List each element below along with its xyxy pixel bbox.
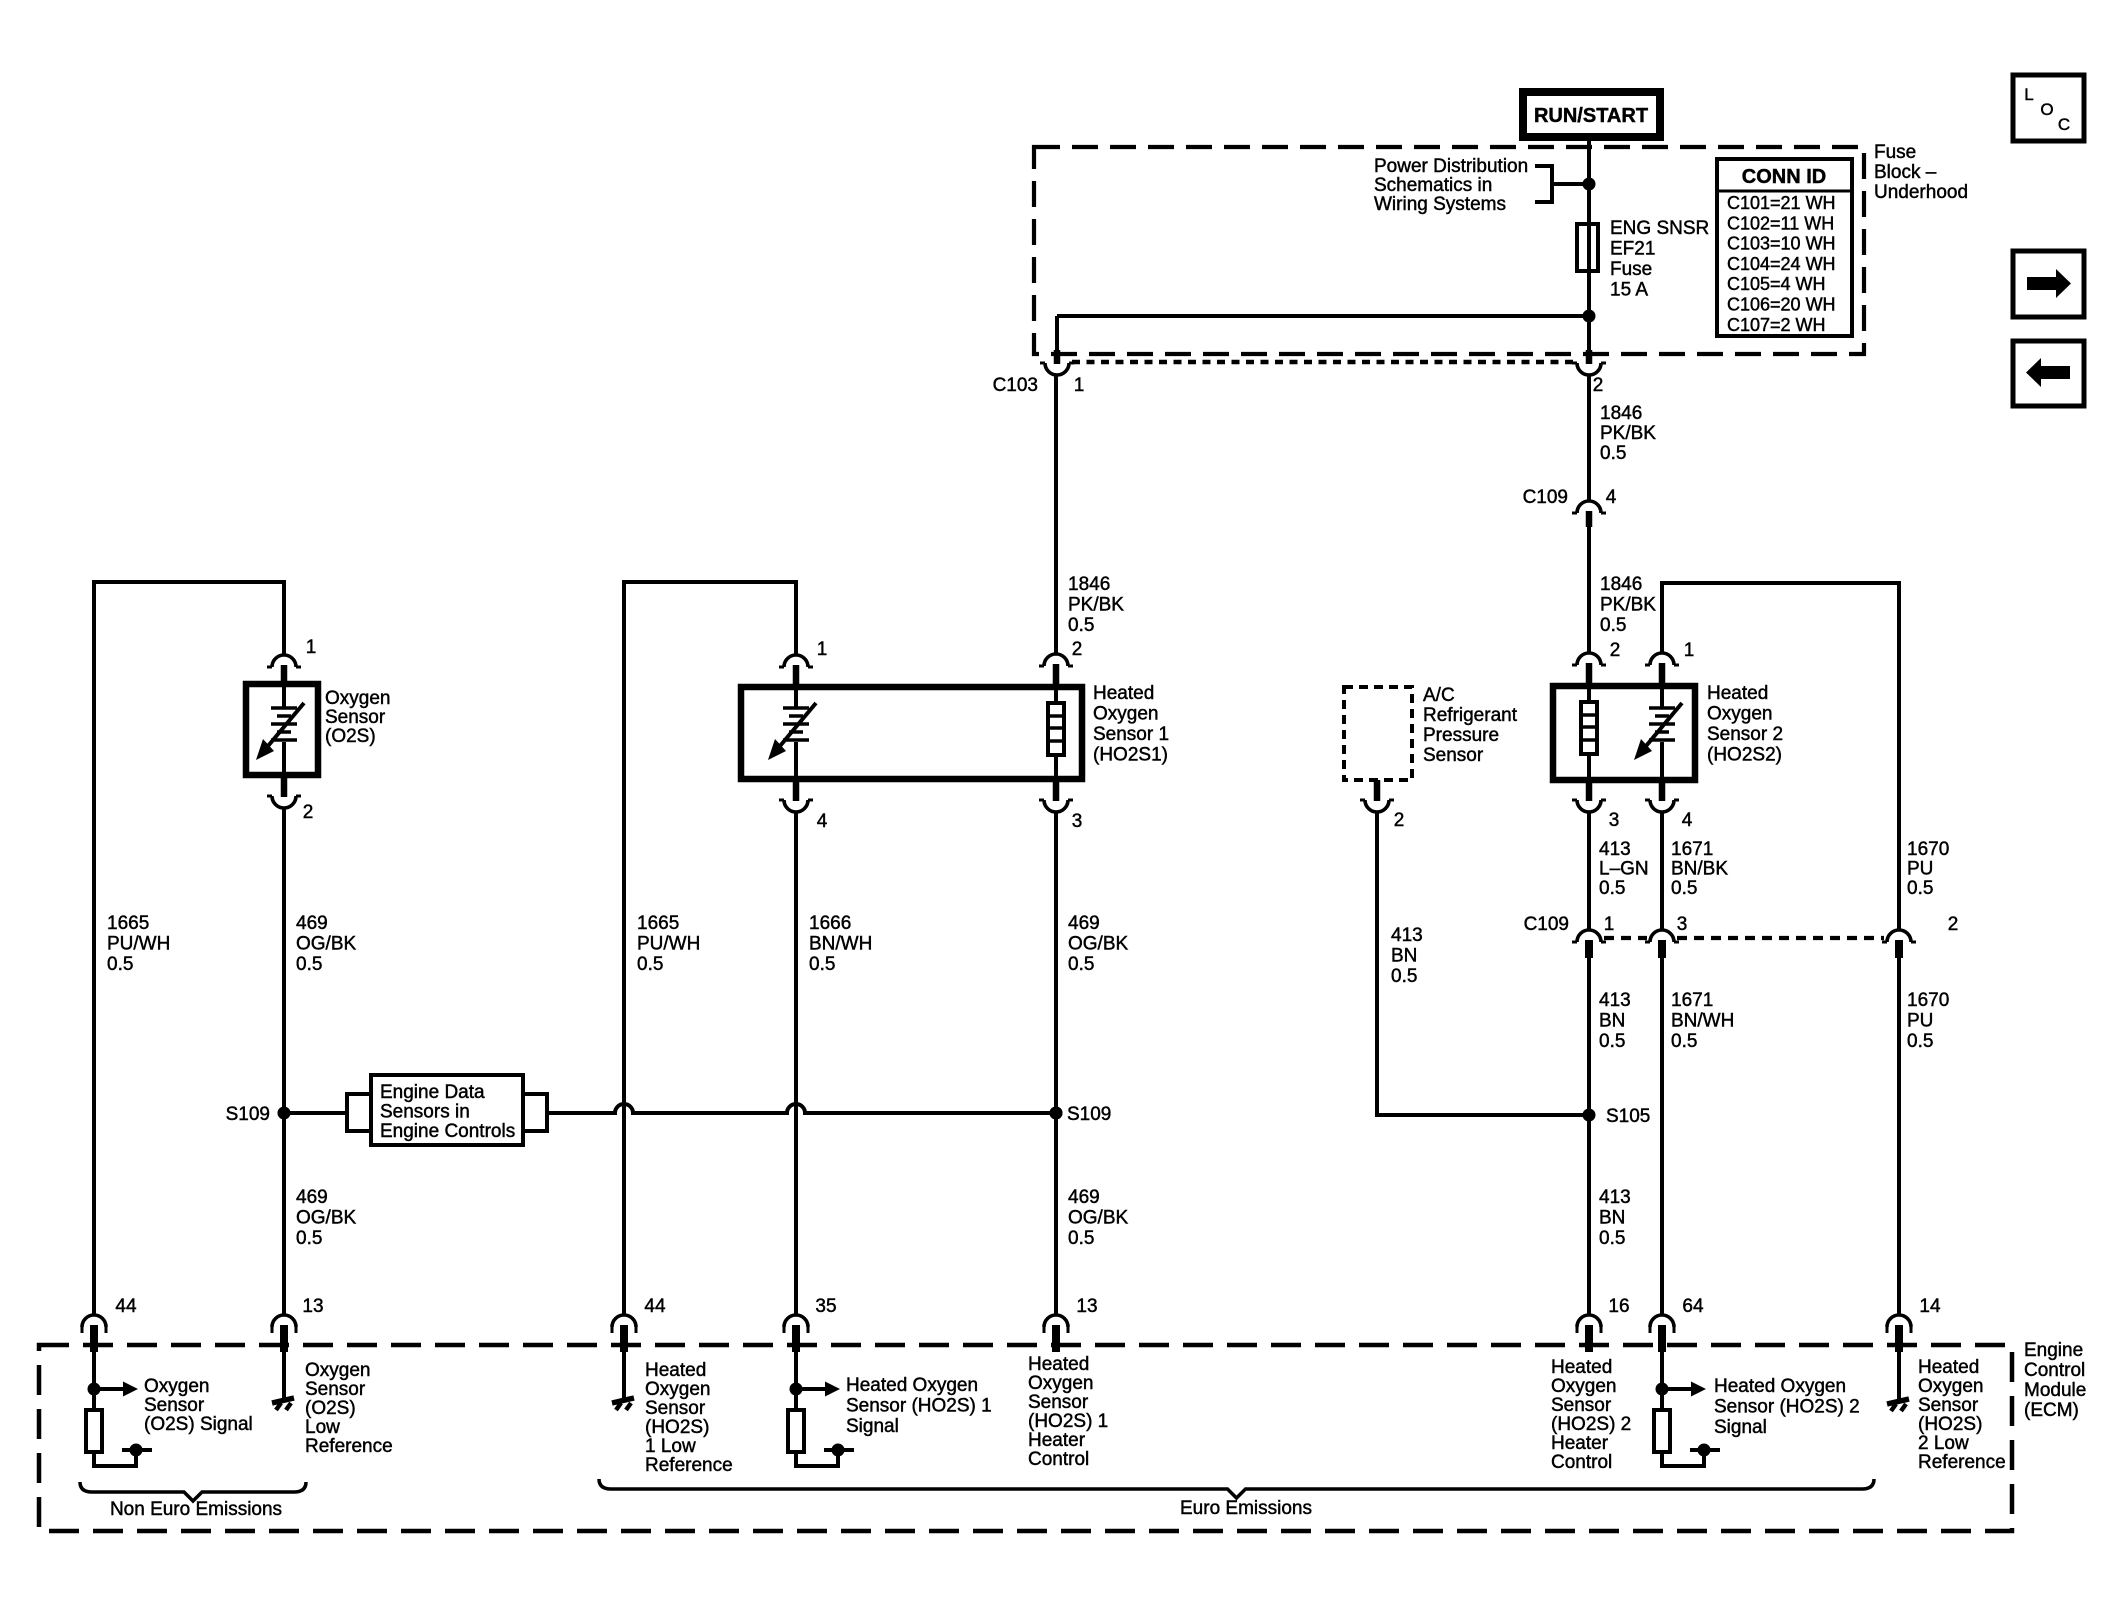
svg-text:413: 413 [1599, 1187, 1631, 1208]
svg-text:0.5: 0.5 [637, 954, 663, 975]
svg-text:C104=24 WH: C104=24 WH [1727, 254, 1836, 274]
svg-text:1665: 1665 [107, 913, 149, 934]
svg-text:Sensor: Sensor [1918, 1395, 1979, 1416]
svg-text:469: 469 [296, 1187, 328, 1208]
svg-text:1846: 1846 [1600, 574, 1642, 595]
svg-text:2: 2 [1394, 810, 1405, 831]
svg-text:1 Low: 1 Low [645, 1436, 696, 1457]
svg-text:C109: C109 [1524, 914, 1569, 935]
svg-text:S105: S105 [1606, 1106, 1650, 1127]
svg-text:Control: Control [2024, 1360, 2085, 1381]
svg-text:1: 1 [817, 639, 828, 660]
svg-text:Signal: Signal [846, 1416, 899, 1437]
svg-text:Sensor (HO2S) 2: Sensor (HO2S) 2 [1714, 1397, 1860, 1418]
svg-text:1: 1 [1074, 375, 1085, 396]
svg-text:0.5: 0.5 [296, 954, 322, 975]
svg-text:PU/WH: PU/WH [637, 934, 700, 955]
svg-text:OG/BK: OG/BK [296, 934, 357, 955]
svg-text:Power Distribution: Power Distribution [1374, 156, 1528, 177]
svg-text:BN/WH: BN/WH [809, 934, 872, 955]
svg-text:(HO2S): (HO2S) [645, 1417, 709, 1438]
svg-text:Pressure: Pressure [1423, 725, 1499, 746]
svg-text:Block –: Block – [1874, 162, 1937, 183]
svg-text:3: 3 [1072, 811, 1083, 832]
svg-text:0.5: 0.5 [1907, 1031, 1933, 1052]
svg-text:2: 2 [1593, 375, 1604, 396]
svg-text:Fuse: Fuse [1610, 259, 1652, 280]
svg-text:Non Euro Emissions: Non Euro Emissions [110, 1499, 282, 1520]
svg-text:0.5: 0.5 [809, 954, 835, 975]
svg-text:S109: S109 [1067, 1104, 1111, 1125]
svg-text:Sensor: Sensor [645, 1398, 706, 1419]
svg-text:S109: S109 [226, 1104, 270, 1125]
svg-text:Heated: Heated [1707, 683, 1768, 704]
svg-text:(HO2S) 1: (HO2S) 1 [1028, 1411, 1108, 1432]
svg-text:Heated: Heated [645, 1360, 706, 1381]
svg-text:Oxygen: Oxygen [305, 1360, 370, 1381]
svg-text:2: 2 [1610, 640, 1621, 661]
svg-text:C101=21 WH: C101=21 WH [1727, 193, 1836, 213]
svg-text:BN: BN [1599, 1208, 1625, 1229]
svg-text:Heated: Heated [1093, 683, 1154, 704]
svg-text:Oxygen: Oxygen [1707, 704, 1772, 725]
svg-text:Heater: Heater [1551, 1433, 1609, 1454]
svg-text:0.5: 0.5 [1599, 1228, 1625, 1249]
svg-text:PU/WH: PU/WH [107, 934, 170, 955]
svg-text:0.5: 0.5 [1599, 1031, 1625, 1052]
svg-text:Reference: Reference [1918, 1452, 2006, 1473]
svg-text:A/C: A/C [1423, 685, 1455, 706]
svg-text:BN: BN [1599, 1011, 1625, 1032]
svg-text:(O2S) Signal: (O2S) Signal [144, 1414, 253, 1435]
svg-text:Sensor: Sensor [305, 1379, 366, 1400]
svg-text:Sensor: Sensor [1028, 1392, 1089, 1413]
svg-text:Oxygen: Oxygen [645, 1379, 710, 1400]
svg-text:Schematics in: Schematics in [1374, 175, 1492, 196]
svg-text:3: 3 [1677, 914, 1688, 935]
svg-text:1: 1 [1604, 914, 1615, 935]
svg-text:2: 2 [303, 802, 314, 823]
svg-text:413: 413 [1599, 839, 1631, 860]
svg-text:0.5: 0.5 [296, 1228, 322, 1249]
svg-text:C103: C103 [993, 375, 1038, 396]
svg-text:35: 35 [815, 1296, 836, 1317]
svg-text:64: 64 [1682, 1296, 1704, 1317]
svg-text:C102=11 WH: C102=11 WH [1727, 213, 1834, 233]
svg-text:Oxygen: Oxygen [1551, 1376, 1616, 1397]
svg-text:Heater: Heater [1028, 1430, 1086, 1451]
svg-text:1: 1 [306, 637, 317, 658]
svg-text:Heated Oxygen: Heated Oxygen [1714, 1376, 1846, 1397]
svg-text:Signal: Signal [1714, 1417, 1767, 1438]
svg-text:Reference: Reference [305, 1436, 393, 1457]
svg-text:1670: 1670 [1907, 839, 1949, 860]
svg-text:Engine Controls: Engine Controls [380, 1121, 515, 1142]
svg-text:Engine Data: Engine Data [380, 1082, 485, 1103]
svg-text:4: 4 [817, 811, 828, 832]
svg-text:0.5: 0.5 [1599, 878, 1625, 899]
svg-text:Sensor 1: Sensor 1 [1093, 724, 1169, 745]
svg-text:Sensor: Sensor [1423, 745, 1484, 766]
svg-text:Wiring Systems: Wiring Systems [1374, 194, 1506, 215]
svg-text:0.5: 0.5 [1907, 878, 1933, 899]
svg-text:2: 2 [1948, 914, 1959, 935]
svg-text:Oxygen: Oxygen [144, 1376, 209, 1397]
svg-text:0.5: 0.5 [1671, 1031, 1697, 1052]
svg-text:OG/BK: OG/BK [1068, 1208, 1129, 1229]
svg-text:C107=2 WH: C107=2 WH [1727, 315, 1826, 335]
svg-text:Sensors in: Sensors in [380, 1102, 470, 1123]
svg-text:44: 44 [115, 1296, 137, 1317]
svg-text:(O2S): (O2S) [305, 1398, 356, 1419]
svg-text:Heated: Heated [1028, 1354, 1089, 1375]
svg-text:15 A: 15 A [1610, 280, 1648, 301]
svg-text:1665: 1665 [637, 913, 679, 934]
svg-text:1846: 1846 [1068, 574, 1110, 595]
svg-text:Oxygen: Oxygen [1093, 704, 1158, 725]
svg-text:Control: Control [1028, 1449, 1089, 1470]
svg-text:O: O [2040, 100, 2053, 119]
svg-text:Heated: Heated [1918, 1357, 1979, 1378]
svg-text:1671: 1671 [1671, 839, 1713, 860]
svg-text:Low: Low [305, 1417, 340, 1438]
svg-text:Sensor 2: Sensor 2 [1707, 724, 1783, 745]
svg-text:1671: 1671 [1671, 990, 1713, 1011]
svg-text:Refrigerant: Refrigerant [1423, 705, 1518, 726]
svg-text:Underhood: Underhood [1874, 182, 1968, 203]
svg-text:0.5: 0.5 [1600, 615, 1626, 636]
svg-text:4: 4 [1682, 810, 1693, 831]
svg-text:0.5: 0.5 [107, 954, 133, 975]
svg-text:C106=20 WH: C106=20 WH [1727, 295, 1836, 315]
svg-text:C109: C109 [1523, 487, 1568, 508]
svg-text:Sensor: Sensor [144, 1395, 205, 1416]
svg-text:EF21: EF21 [1610, 239, 1655, 260]
svg-text:44: 44 [644, 1296, 666, 1317]
svg-text:Oxygen: Oxygen [325, 688, 390, 709]
svg-text:3: 3 [1609, 810, 1620, 831]
svg-text:L: L [2024, 85, 2033, 104]
svg-text:13: 13 [302, 1296, 323, 1317]
svg-text:PU: PU [1907, 859, 1933, 880]
svg-text:Control: Control [1551, 1452, 1612, 1473]
svg-text:413: 413 [1599, 990, 1631, 1011]
svg-text:Module: Module [2024, 1380, 2086, 1401]
svg-text:PK/BK: PK/BK [1068, 595, 1124, 616]
svg-text:0.5: 0.5 [1391, 966, 1417, 987]
svg-text:469: 469 [296, 913, 328, 934]
svg-text:0.5: 0.5 [1600, 443, 1626, 464]
svg-text:Sensor: Sensor [1551, 1395, 1612, 1416]
svg-text:Heated: Heated [1551, 1357, 1612, 1378]
svg-text:Fuse: Fuse [1874, 142, 1916, 163]
svg-text:(HO2S): (HO2S) [1918, 1414, 1982, 1435]
svg-text:PU: PU [1907, 1011, 1933, 1032]
svg-text:PK/BK: PK/BK [1600, 595, 1656, 616]
svg-text:OG/BK: OG/BK [296, 1208, 357, 1229]
svg-text:(O2S): (O2S) [325, 726, 376, 747]
svg-text:2: 2 [1072, 639, 1083, 660]
svg-text:PK/BK: PK/BK [1600, 423, 1656, 444]
svg-text:Reference: Reference [645, 1455, 733, 1476]
svg-text:1846: 1846 [1600, 403, 1642, 424]
svg-text:BN/WH: BN/WH [1671, 1011, 1734, 1032]
svg-text:13: 13 [1076, 1296, 1097, 1317]
svg-text:CONN ID: CONN ID [1742, 166, 1826, 188]
svg-text:469: 469 [1068, 913, 1100, 934]
svg-text:1670: 1670 [1907, 990, 1949, 1011]
svg-text:Heated Oxygen: Heated Oxygen [846, 1375, 978, 1396]
svg-text:0.5: 0.5 [1068, 1228, 1094, 1249]
svg-text:1: 1 [1684, 640, 1695, 661]
svg-text:RUN/START: RUN/START [1534, 105, 1648, 127]
svg-text:Sensor: Sensor [325, 707, 386, 728]
svg-text:16: 16 [1608, 1296, 1629, 1317]
svg-text:0.5: 0.5 [1068, 954, 1094, 975]
svg-text:413: 413 [1391, 925, 1423, 946]
svg-text:0.5: 0.5 [1671, 878, 1697, 899]
svg-text:469: 469 [1068, 1187, 1100, 1208]
svg-text:BN: BN [1391, 946, 1417, 967]
svg-text:L–GN: L–GN [1599, 859, 1649, 880]
svg-text:C105=4 WH: C105=4 WH [1727, 274, 1826, 294]
svg-text:Oxygen: Oxygen [1028, 1373, 1093, 1394]
svg-text:(ECM): (ECM) [2024, 1400, 2079, 1421]
svg-text:(HO2S) 2: (HO2S) 2 [1551, 1414, 1631, 1435]
svg-text:Sensor (HO2S) 1: Sensor (HO2S) 1 [846, 1396, 992, 1417]
svg-text:Oxygen: Oxygen [1918, 1376, 1983, 1397]
svg-text:C103=10 WH: C103=10 WH [1727, 234, 1836, 254]
svg-text:(HO2S1): (HO2S1) [1093, 745, 1168, 766]
svg-text:1666: 1666 [809, 913, 851, 934]
svg-text:2 Low: 2 Low [1918, 1433, 1969, 1454]
svg-text:OG/BK: OG/BK [1068, 934, 1129, 955]
svg-text:BN/BK: BN/BK [1671, 859, 1728, 880]
svg-text:Euro Emissions: Euro Emissions [1180, 1498, 1312, 1519]
svg-text:4: 4 [1606, 487, 1617, 508]
svg-text:(HO2S2): (HO2S2) [1707, 745, 1782, 766]
svg-text:0.5: 0.5 [1068, 615, 1094, 636]
svg-text:Engine: Engine [2024, 1340, 2083, 1361]
svg-text:ENG SNSR: ENG SNSR [1610, 218, 1709, 239]
svg-text:14: 14 [1919, 1296, 1941, 1317]
svg-text:C: C [2058, 115, 2070, 134]
